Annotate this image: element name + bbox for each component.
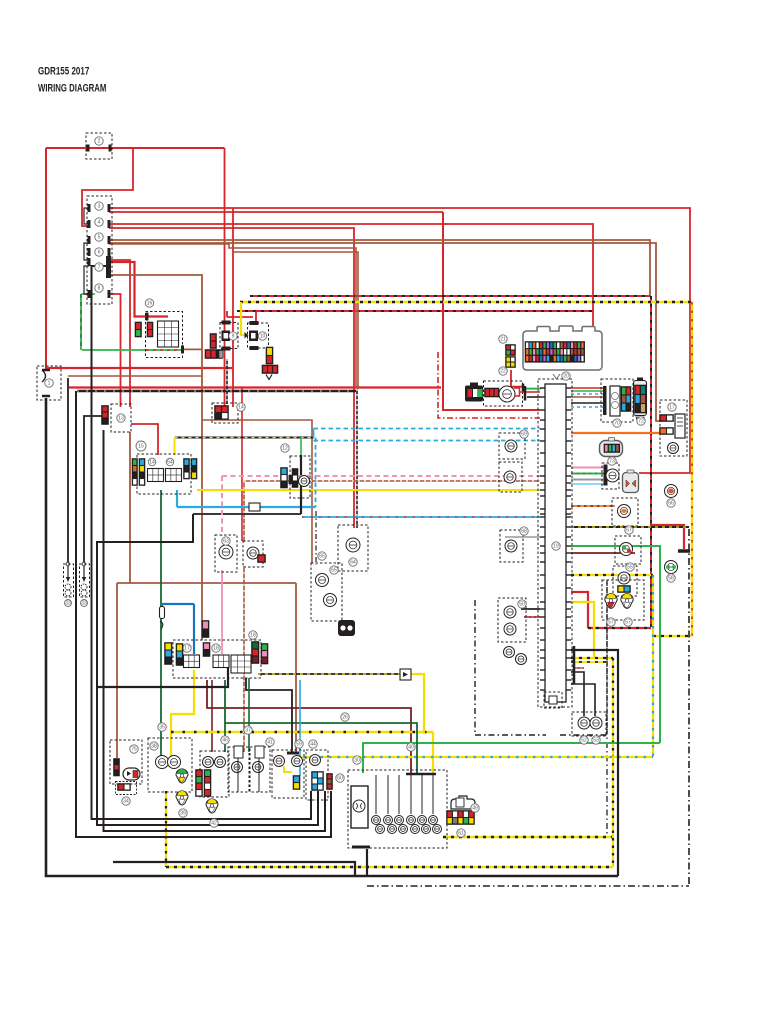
wire yellow x613 vertical xyxy=(612,658,614,867)
wire black dash-dot right border xyxy=(688,529,690,886)
wire brown fuse7 long vertical xyxy=(109,275,202,640)
wire red starter motor path xyxy=(571,592,588,628)
wire brown-dash sender xyxy=(244,480,540,482)
svg-text:15: 15 xyxy=(138,444,144,450)
wire yellow x166 vertical xyxy=(165,791,167,867)
wire green fuse8 stub xyxy=(81,293,95,295)
position lamp xyxy=(176,791,188,805)
wire orange-dash conn67 xyxy=(571,505,615,507)
connector 54 xyxy=(544,692,562,708)
wire red fuse6 to conn13a xyxy=(109,260,130,407)
svg-text:10: 10 xyxy=(260,334,266,340)
svg-text:17: 17 xyxy=(184,646,190,652)
svg-text:18: 18 xyxy=(213,646,219,652)
tail lamp bulbs xyxy=(602,580,644,620)
wire green ecu link xyxy=(511,370,541,392)
wire black-yellow harness 527 xyxy=(571,526,689,528)
connector 67 xyxy=(612,498,638,526)
wire black battery terminal xyxy=(678,549,690,553)
wire brown brake down xyxy=(295,583,297,752)
rear brake switch xyxy=(311,563,342,621)
wire maroon harness to conn55 xyxy=(571,552,635,554)
svg-text:42: 42 xyxy=(211,821,217,827)
svg-text:65: 65 xyxy=(319,554,325,560)
wire black conn13 down xyxy=(104,430,326,831)
wire brown bus 583 xyxy=(117,582,296,584)
wire red injector stub xyxy=(527,391,540,393)
wire yellow horn bus long xyxy=(171,731,433,733)
wire red x354 to fuel pump xyxy=(353,388,355,528)
wire brown-dash sensor to flasher xyxy=(243,566,245,752)
label circle 44 xyxy=(309,740,317,748)
svg-text:34: 34 xyxy=(123,799,129,805)
label circle 52 xyxy=(580,736,588,744)
wire yellow top long xyxy=(240,301,692,303)
svg-text:4: 4 xyxy=(98,220,101,226)
svg-text:2: 2 xyxy=(98,139,101,145)
wire black-yellow diode xyxy=(258,673,403,675)
label circle 41 xyxy=(266,738,274,746)
connector H xyxy=(326,773,344,790)
svg-text:69: 69 xyxy=(521,432,527,438)
sensor connector xyxy=(243,541,266,567)
wire red x227 branch down xyxy=(232,208,234,407)
wire yellow headlamp bus xyxy=(171,670,194,761)
svg-text:WIRING DIAGRAM: WIRING DIAGRAM xyxy=(38,82,106,95)
wire yellow harness 602 xyxy=(571,602,594,658)
wire black stator ground xyxy=(366,849,368,876)
resistor on cyan xyxy=(249,503,260,511)
wire red fuse6b to relay16 xyxy=(109,262,168,317)
rectifier 61 xyxy=(446,796,475,837)
wire yellow joint 636 xyxy=(653,635,692,637)
diode xyxy=(400,669,411,680)
wire red fuse4b to x354 xyxy=(109,228,354,388)
svg-text:7: 7 xyxy=(98,265,101,271)
label circle 39 xyxy=(179,809,187,817)
wire red vertical x223 to joint 14 xyxy=(224,148,226,407)
label circle 69 xyxy=(520,430,528,438)
wire yellow-black 658 xyxy=(571,658,613,662)
connector 68 xyxy=(500,530,523,562)
fuse block 3-8 xyxy=(84,196,112,304)
wire black start sw xyxy=(246,678,292,752)
injector connector xyxy=(484,381,528,406)
wire brown fuse5 to x650 xyxy=(109,240,650,296)
connector 51 xyxy=(504,647,527,665)
label circle 22 xyxy=(499,367,507,375)
wire red-dash right vertical xyxy=(650,296,652,627)
AC magneto xyxy=(348,770,447,848)
wire pink dash long xyxy=(222,475,540,477)
wire green headlamp xyxy=(160,490,162,761)
wire blue fuse link xyxy=(162,604,194,607)
wire black horn a xyxy=(67,378,69,562)
ignition coil connectors xyxy=(572,712,606,736)
connector T-block 11b xyxy=(205,349,223,359)
svg-text:68: 68 xyxy=(521,529,527,535)
svg-text:5: 5 xyxy=(98,235,101,241)
wire black ground left border xyxy=(46,398,618,876)
wire yellow ground long 867 xyxy=(166,866,613,868)
wire brown branch to conn12 xyxy=(202,420,312,563)
wire orange fan relay xyxy=(571,432,662,434)
svg-text:41: 41 xyxy=(267,740,273,746)
wire red fuse3b to x443 xyxy=(109,211,443,213)
connector pink sensor xyxy=(202,620,210,638)
label circle 67 xyxy=(625,526,633,534)
clutch switch xyxy=(110,740,142,784)
svg-text:66: 66 xyxy=(668,501,674,507)
wire yellow magneto 837 xyxy=(443,836,612,838)
wire black dash-dot x607 xyxy=(606,580,608,837)
wire green-dash harness xyxy=(571,473,604,475)
wire green sw down xyxy=(248,678,250,752)
wire gray harness left xyxy=(505,536,540,538)
svg-text:GDR155 2017: GDR155 2017 xyxy=(38,65,89,78)
wire green relay16 xyxy=(82,349,146,351)
svg-text:13: 13 xyxy=(118,416,124,422)
wire brown conn13 down xyxy=(129,432,131,583)
wire brown clutch down xyxy=(116,583,118,758)
svg-text:22: 22 xyxy=(500,369,506,375)
svg-text:26: 26 xyxy=(342,715,348,721)
wire green magneto long xyxy=(363,743,660,773)
clutch switch lower xyxy=(116,782,137,795)
label circle 30 xyxy=(353,756,361,764)
connector 9 xyxy=(220,323,238,349)
svg-text:53: 53 xyxy=(593,738,599,744)
label circle 57a xyxy=(607,618,615,626)
flasher bulb xyxy=(206,799,218,813)
label circle 42 xyxy=(210,819,218,827)
wire brown fuse5b to relay17 xyxy=(109,243,662,421)
svg-text:63: 63 xyxy=(223,539,229,545)
wire red-dashdot idle xyxy=(438,352,540,418)
wire red main dash xyxy=(237,310,593,312)
wire red fuse8 to conn13b xyxy=(109,294,121,407)
wire yellow right vertical xyxy=(691,302,693,636)
wire black sw bottom xyxy=(97,668,228,687)
wire gray sidestand xyxy=(193,436,301,514)
joint connector 14 xyxy=(212,403,245,423)
wire maroon sw to flasher xyxy=(211,680,213,752)
connector 58 xyxy=(665,561,678,583)
svg-text:46: 46 xyxy=(222,738,228,744)
svg-text:21: 21 xyxy=(500,337,506,343)
label circle 68 xyxy=(520,527,528,535)
svg-text:17: 17 xyxy=(669,405,675,411)
connector 50 xyxy=(498,598,526,642)
wire red conn10 stub xyxy=(226,311,228,317)
wire black ground mid xyxy=(113,862,355,876)
wire cyan meter top xyxy=(314,429,541,438)
svg-text:65: 65 xyxy=(331,568,337,574)
svg-text:14: 14 xyxy=(238,405,244,411)
wire cyan-red 517 xyxy=(302,516,540,518)
label circle 59 xyxy=(295,740,303,748)
svg-text:8: 8 xyxy=(98,286,101,292)
wire green dark sw to magneto xyxy=(225,680,417,773)
svg-text:57: 57 xyxy=(625,620,631,626)
connector 74 xyxy=(602,463,619,489)
front turn signal left xyxy=(228,746,249,792)
wire red harness to conn71 xyxy=(571,387,603,389)
label circle 66 xyxy=(667,499,675,507)
wire black conn50 xyxy=(521,608,540,610)
wire cyan harness right xyxy=(571,393,603,395)
label circle 34 xyxy=(122,797,130,805)
svg-text:72: 72 xyxy=(638,419,644,425)
connector 71 xyxy=(601,379,633,422)
wire maroon sw to magneto xyxy=(207,680,411,773)
connector 56 xyxy=(613,566,637,596)
svg-text:39: 39 xyxy=(180,811,186,817)
wire black-dash T-block to joint14 xyxy=(226,359,228,404)
wire red sensor branch xyxy=(241,388,243,542)
wire brown-dash sender vert xyxy=(243,481,245,542)
ECU side connector b xyxy=(505,356,516,368)
svg-text:44: 44 xyxy=(310,742,316,748)
wire blue sw stub xyxy=(193,604,195,654)
connector 12 xyxy=(280,444,310,498)
svg-text:67: 67 xyxy=(626,528,632,534)
wire brown fuse6 jog a xyxy=(109,244,356,388)
label circle 20 xyxy=(562,372,570,380)
label circle 33b xyxy=(81,600,88,607)
svg-text:3: 3 xyxy=(98,204,101,210)
svg-text:52: 52 xyxy=(581,738,587,744)
connector 13 xyxy=(101,404,131,432)
label circle 72 xyxy=(637,417,645,425)
wire black harness coil stub b xyxy=(571,646,595,716)
wire green dashdot fuse8 xyxy=(80,294,82,350)
ECU side connector a xyxy=(505,344,516,356)
label circle 53 xyxy=(592,736,600,744)
relay box 16 xyxy=(135,299,183,358)
wire black injector stub xyxy=(527,396,540,398)
svg-text:16: 16 xyxy=(147,301,153,307)
svg-text:58: 58 xyxy=(668,576,674,582)
handlebar switch 17/18 xyxy=(164,640,268,678)
svg-text:12: 12 xyxy=(282,446,288,452)
wire red fuse9 link xyxy=(227,311,256,323)
wire green harness fan xyxy=(571,546,660,743)
label circle 57b xyxy=(624,618,632,626)
wire black-dash x357 to fuel pump xyxy=(356,389,358,528)
wire red fuse3 to right x690 xyxy=(109,208,690,473)
connector 72 xyxy=(634,378,647,423)
wire black-dashdot frame box b xyxy=(560,580,607,735)
wire brown relay16 out xyxy=(182,348,202,350)
connector 11 xyxy=(262,347,279,380)
front turn signal right xyxy=(250,746,270,792)
svg-text:55: 55 xyxy=(627,565,633,571)
wire yellow-blue vert x653 xyxy=(652,575,654,757)
wire cyan brake bottom xyxy=(299,680,301,776)
wire gray harness xyxy=(571,479,604,481)
connector 68a xyxy=(499,462,522,492)
wire cyan 507 xyxy=(177,506,316,508)
wire green-red relay16 dash xyxy=(146,349,181,351)
fan motor relay xyxy=(659,400,687,456)
svg-text:33: 33 xyxy=(81,601,87,607)
svg-text:60: 60 xyxy=(337,776,343,782)
svg-text:59: 59 xyxy=(296,742,302,748)
svg-text:75: 75 xyxy=(131,747,137,753)
wire dashdot conn12 to 65 xyxy=(315,511,317,565)
wire cyan meter bottom stub xyxy=(176,490,178,507)
label circle 46 xyxy=(221,736,229,744)
connector stack 11a xyxy=(210,333,217,349)
main switch 1 xyxy=(37,366,61,400)
wire black dash-dot bottom xyxy=(367,885,689,887)
connector 66 brake xyxy=(338,620,355,636)
connector 55 xyxy=(615,536,641,564)
wire black conn71c xyxy=(571,402,603,404)
svg-text:33: 33 xyxy=(65,601,71,607)
wire cyan x315 xyxy=(315,438,317,508)
wire black-dashdot frame box xyxy=(475,600,546,735)
wire yellow into magneto xyxy=(432,732,434,773)
wire green harness right xyxy=(571,390,603,392)
connector 73 xyxy=(600,438,623,457)
wire red starter dash xyxy=(250,295,651,297)
wire brown fuse6 jog b xyxy=(232,252,358,389)
meter assembly 15 xyxy=(132,441,198,494)
label circle 26 xyxy=(341,713,349,721)
label circle 55 xyxy=(626,563,634,571)
label circle 37 xyxy=(244,726,252,734)
svg-text:19: 19 xyxy=(553,544,559,550)
wire yellow meter stub xyxy=(174,438,176,456)
ECU connector xyxy=(523,326,602,379)
horn left xyxy=(64,562,74,597)
svg-text:61: 61 xyxy=(458,831,464,837)
svg-text:14: 14 xyxy=(149,460,155,466)
wire black horn b xyxy=(84,416,104,562)
wire brown branch to horn xyxy=(68,375,202,377)
wire red-dash conn50 xyxy=(524,616,540,618)
connector 69 xyxy=(499,433,525,459)
wire black-yellow meter link xyxy=(175,437,314,439)
wire green dark flasher stub xyxy=(224,723,226,752)
svg-text:57: 57 xyxy=(608,620,614,626)
svg-text:20: 20 xyxy=(563,374,569,380)
wire yellow diode out xyxy=(408,674,424,734)
wire yellow conn9 stub xyxy=(241,302,246,335)
wire black ground bus xyxy=(77,390,356,392)
connector 66 xyxy=(665,485,678,498)
speed sensor 63 xyxy=(215,535,237,572)
svg-text:18: 18 xyxy=(250,633,256,639)
label circle 33a xyxy=(65,600,72,607)
turn signal relay xyxy=(195,751,229,797)
wire yellow-cyan bottom xyxy=(295,756,653,758)
wire black bus left down xyxy=(76,391,331,837)
svg-text:35: 35 xyxy=(159,725,165,731)
svg-text:64: 64 xyxy=(350,560,356,566)
wire pink dash vert xyxy=(221,476,223,536)
svg-text:30: 30 xyxy=(354,758,360,764)
connector 75 xyxy=(623,470,639,493)
wire black stator ground bar xyxy=(352,846,370,849)
wire red battery bus xyxy=(69,386,441,388)
wire red fuse4 to x593 xyxy=(109,224,593,335)
wire cyan conn71d xyxy=(571,406,603,408)
wire lightblue harness xyxy=(571,483,604,485)
horn right xyxy=(80,562,90,597)
svg-text:6: 6 xyxy=(98,250,101,256)
label circle 5b xyxy=(318,552,326,560)
svg-text:49: 49 xyxy=(472,806,478,812)
svg-text:70: 70 xyxy=(614,421,620,427)
svg-text:50: 50 xyxy=(519,602,525,608)
wire red-dash starter bottom xyxy=(588,627,651,629)
label circle 21 xyxy=(499,335,507,343)
wire red x443 vertical xyxy=(443,212,540,410)
svg-text:37: 37 xyxy=(245,728,251,734)
svg-text:73: 73 xyxy=(609,459,615,465)
headlight xyxy=(148,738,192,792)
wire cyan 441 xyxy=(314,440,541,442)
throttle body coupler xyxy=(465,383,483,402)
svg-text:64: 64 xyxy=(167,460,173,466)
label circle 40 xyxy=(407,743,415,751)
fuse 2 xyxy=(86,133,112,159)
label circle 73 xyxy=(608,457,616,465)
label circle 70 xyxy=(613,419,621,427)
svg-text:9: 9 xyxy=(232,334,235,340)
wire black fuse7 down xyxy=(92,266,312,819)
wire red battery branch xyxy=(651,525,684,549)
wire pink harness right xyxy=(571,467,604,469)
wire black harness ground right xyxy=(571,650,618,876)
wire red main-switch feed xyxy=(46,147,225,149)
wire brown harness right xyxy=(571,396,603,398)
fuel pump connector xyxy=(338,525,368,571)
wire harness xyxy=(538,379,572,707)
svg-text:40: 40 xyxy=(408,745,414,751)
svg-text:1: 1 xyxy=(48,381,51,387)
wire red conn13 to meter xyxy=(131,424,158,455)
label circle 49 xyxy=(471,804,479,812)
svg-text:38: 38 xyxy=(151,744,157,750)
title text xyxy=(38,65,106,95)
brake switch box xyxy=(306,750,328,800)
wire pink sensor to sw xyxy=(221,570,223,654)
fuse on blue wire xyxy=(160,607,165,630)
wire yellow meter xyxy=(197,489,540,491)
wire black sidestand down xyxy=(97,514,318,825)
label circle 18b xyxy=(249,631,257,639)
wire red main feed 368 xyxy=(46,367,233,369)
connector 10 xyxy=(245,323,269,348)
wire red left vertical to conn 1 xyxy=(45,148,47,369)
label circle 35 xyxy=(158,723,166,731)
wire black harness coil stub a xyxy=(571,668,584,716)
wire yellow harness 575 xyxy=(571,574,653,576)
wire red jog to fuse 4 xyxy=(82,148,133,226)
starter switch box xyxy=(272,750,304,798)
